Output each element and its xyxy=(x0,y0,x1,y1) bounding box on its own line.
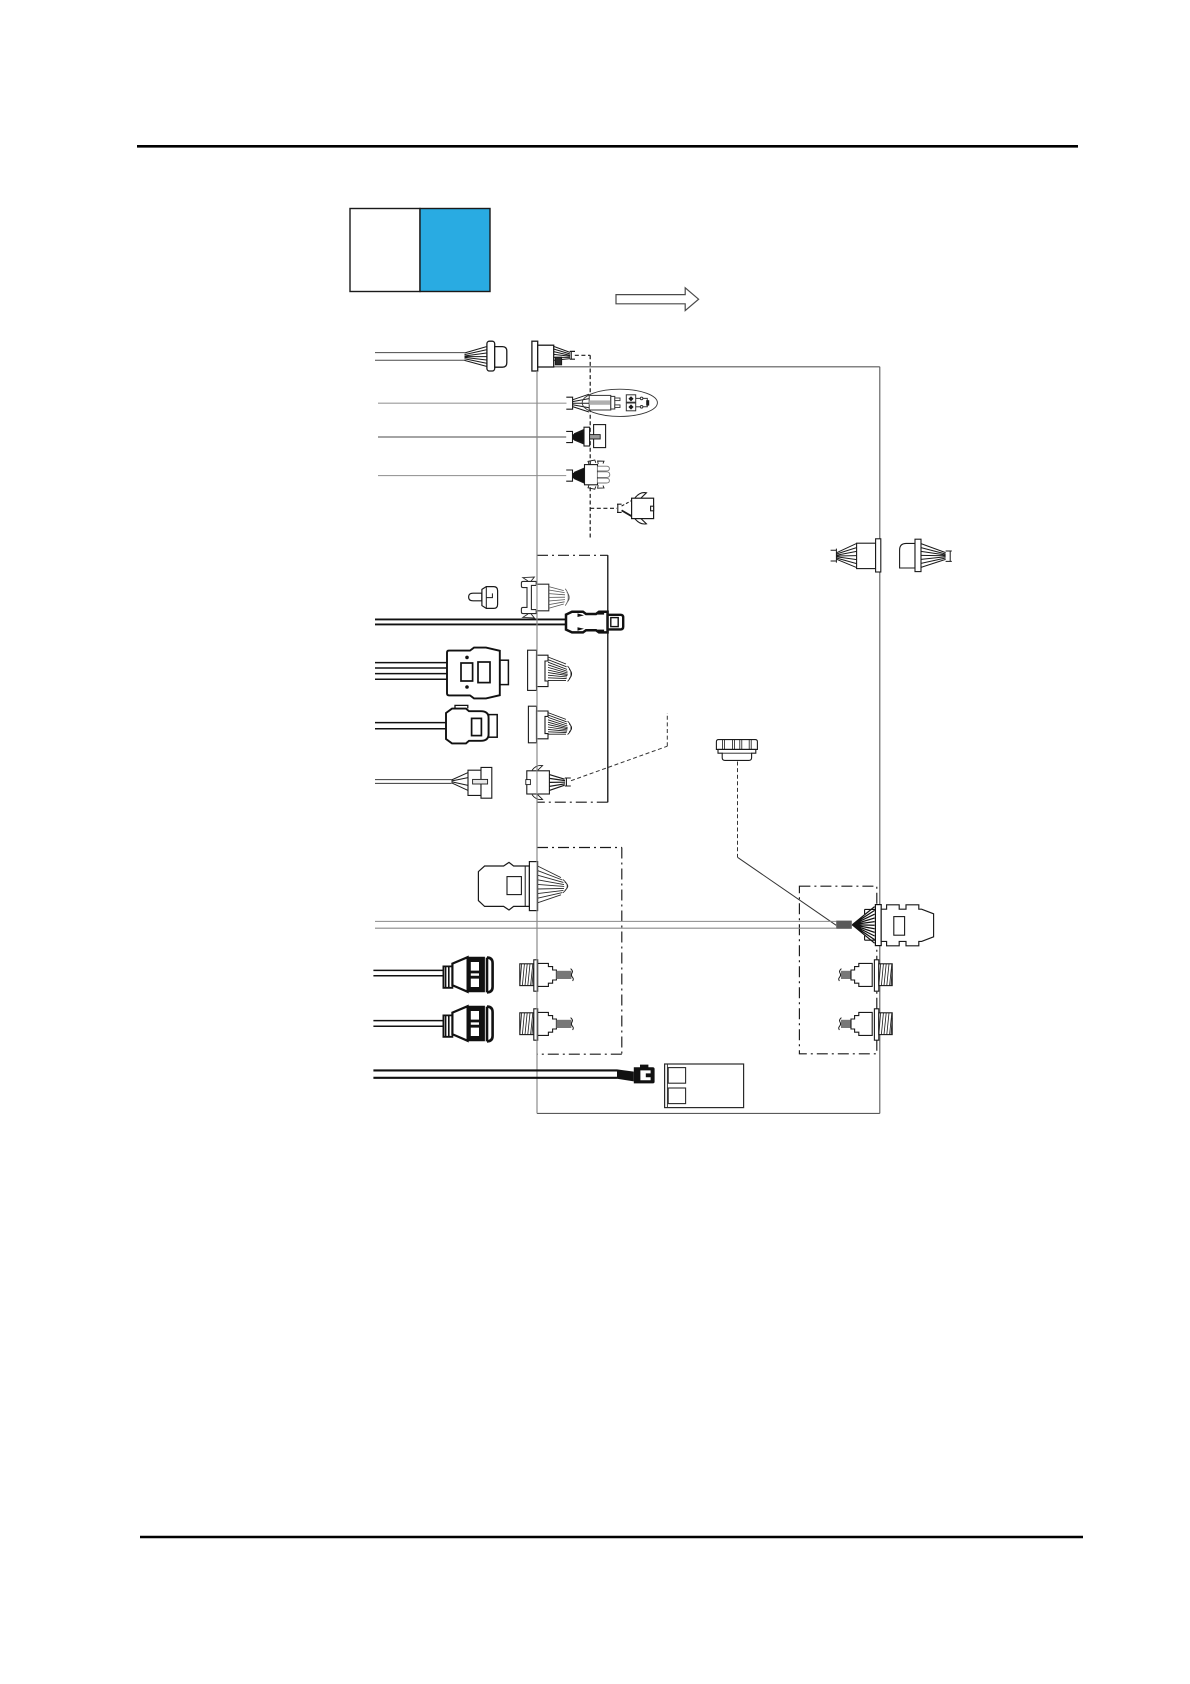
wire row3 xyxy=(378,436,566,438)
sensor drop dashed line xyxy=(738,762,837,926)
connector row1 right receptacle xyxy=(532,341,575,371)
connector row5 (dashed pigtail) xyxy=(617,493,654,524)
key blade terminal xyxy=(469,587,498,609)
footer rule xyxy=(140,1536,1083,1539)
group box 2 (dash-dot) xyxy=(537,848,622,1055)
connector box3 lower boot (threaded, mirrored) xyxy=(839,1009,893,1040)
wire rowD xyxy=(375,723,446,729)
branch dashed drop line xyxy=(575,355,617,540)
group box 3 (dash-dot) xyxy=(799,886,876,1054)
lamp symbol in oval xyxy=(582,389,657,416)
connector row11 boot plug (black) xyxy=(443,957,492,992)
legend color box (cyan half) xyxy=(420,209,490,292)
harness trunk line (bottom) xyxy=(537,1112,880,1114)
connector rowD housing xyxy=(446,705,497,743)
connector box2 large housing xyxy=(478,862,567,911)
long trunk wire xyxy=(375,921,836,928)
connector box3 upper boot (threaded, mirrored) xyxy=(839,960,893,991)
connector rowB inline xyxy=(566,612,623,633)
wire row1 xyxy=(375,353,465,361)
relay module box xyxy=(665,1064,744,1108)
connector row11 mate (threaded) xyxy=(520,960,574,991)
harness trunk line (left vertical) xyxy=(536,371,538,1113)
wire row4 xyxy=(378,475,566,477)
connector mid-right plug (fan left) xyxy=(831,539,881,572)
trunk wire sheath xyxy=(836,921,852,929)
connector rowE mate xyxy=(526,765,571,799)
connector row12 boot plug (black) xyxy=(443,1006,492,1041)
connector rowC mate xyxy=(528,650,572,690)
connector row12 mate (threaded) xyxy=(520,1009,574,1040)
diagnostic dashed leader xyxy=(571,713,667,781)
direction arrow xyxy=(616,288,699,311)
wire rowE xyxy=(375,780,452,784)
wire row12 xyxy=(373,1021,443,1027)
wire row11 xyxy=(373,970,443,975)
connector rowE plug xyxy=(452,767,492,798)
connector rowC housing xyxy=(447,648,508,699)
connector row4 plug xyxy=(566,460,610,489)
connector row13 plug xyxy=(617,1065,655,1084)
wire row2 xyxy=(378,402,567,404)
connector rowD mate xyxy=(528,706,571,743)
wire rowB (heavy) xyxy=(375,619,566,624)
wire row13 (heavy) xyxy=(373,1070,617,1077)
harness trunk line (right vertical) xyxy=(879,367,881,1114)
connector row3 plug xyxy=(566,425,605,448)
harness trunk line (top) xyxy=(554,366,880,368)
connector row2 bulb socket xyxy=(566,394,589,412)
connector trunk receptacle body xyxy=(881,905,933,946)
connector trunk plug (fan) xyxy=(852,905,881,946)
sealing cap xyxy=(716,740,757,761)
wire rowC (4 conductors) xyxy=(375,663,447,680)
group box 1 (dash-dot) xyxy=(537,555,608,802)
legend color box (white half) xyxy=(350,209,420,292)
header rule xyxy=(137,145,1078,148)
trunk line overlays xyxy=(537,371,608,1113)
connector rowA receptacle xyxy=(521,577,569,618)
connector row1 left plug xyxy=(465,341,507,371)
connector mid-right receptacle (fan right) xyxy=(900,539,952,571)
